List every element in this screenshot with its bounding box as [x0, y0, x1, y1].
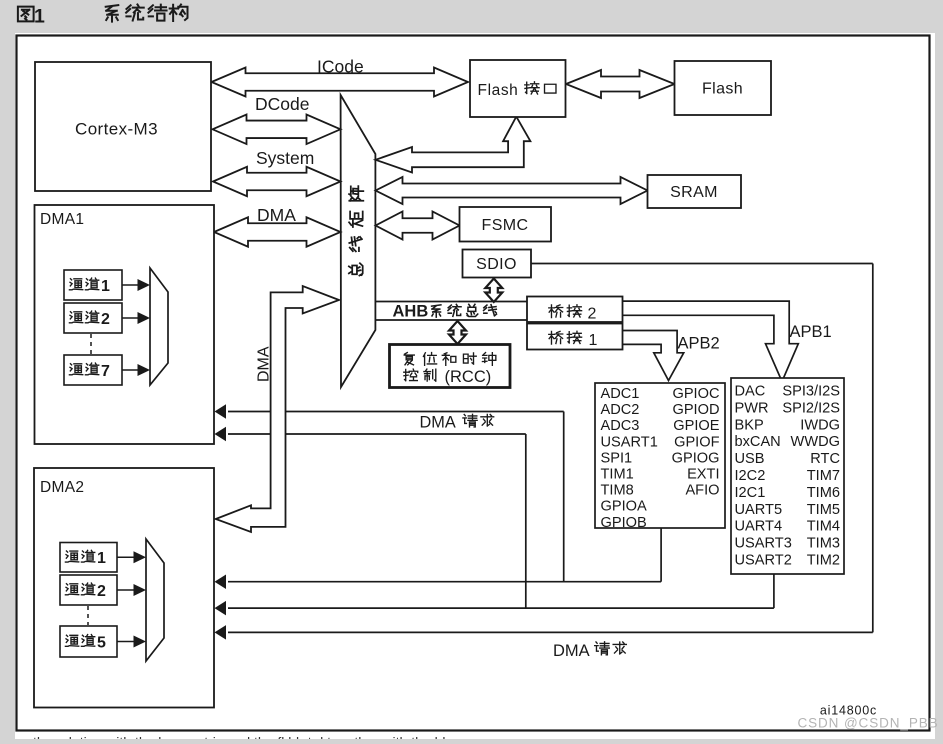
wire channel to mux — [117, 584, 146, 596]
wire channel to mux — [122, 312, 150, 324]
box FSMC — [460, 207, 552, 242]
svg-text:1: 1 — [34, 5, 45, 27]
hollow arrow bridge1 to APB2 — [623, 331, 720, 381]
box DMA1 通道1 — [64, 270, 122, 300]
svg-text:ICode: ICode — [317, 57, 364, 77]
box bridge 桥接2 — [527, 297, 623, 323]
svg-text:DMA: DMA — [553, 642, 590, 660]
svg-text:DMA: DMA — [256, 346, 273, 382]
dashed line DMA2 channels — [87, 606, 89, 625]
svg-text:the relation with the bus matr: the relation with the bus matrix and the… — [33, 734, 450, 739]
mux DMA1 — [150, 268, 168, 385]
svg-text:GPIOA: GPIOA — [601, 499, 647, 515]
svg-text:APB2: APB2 — [678, 335, 720, 353]
arrow Flash interface to Flash — [566, 70, 675, 98]
svg-text:UART5: UART5 — [735, 502, 783, 518]
arrow DMA (DMA1 to matrix) — [214, 205, 341, 247]
svg-text:1: 1 — [589, 332, 598, 349]
arrow matrix to FSMC — [376, 212, 460, 240]
svg-text:TIM2: TIM2 — [807, 553, 840, 569]
box APB2 peripherals — [595, 383, 725, 531]
svg-text:USART1: USART1 — [601, 434, 658, 450]
svg-text:Cortex-M3: Cortex-M3 — [75, 120, 158, 139]
svg-text:BKP: BKP — [735, 417, 764, 433]
box SRAM — [648, 175, 742, 208]
svg-text:AHB: AHB — [393, 303, 429, 321]
svg-text:USB: USB — [735, 451, 765, 467]
arrow ICode — [212, 57, 469, 97]
svg-text:ADC2: ADC2 — [601, 402, 640, 418]
svg-text:bxCAN: bxCAN — [735, 434, 781, 450]
box DMA1 通道7 — [64, 355, 122, 385]
bus matrix 总线矩阵 — [341, 95, 376, 387]
wire channel to mux — [117, 551, 146, 563]
box DMA1 — [35, 205, 215, 444]
svg-text:I2C2: I2C2 — [735, 468, 766, 484]
svg-text:GPIOE: GPIOE — [673, 418, 719, 434]
box DMA2 通道5 — [60, 626, 117, 657]
box APB1 peripherals — [731, 378, 844, 574]
arrow matrix to SRAM — [376, 177, 648, 204]
svg-text:DMA2: DMA2 — [40, 479, 84, 496]
svg-text:DMA: DMA — [420, 414, 456, 432]
label DMA 请求 (lower) — [553, 642, 626, 660]
svg-text:GPIOG: GPIOG — [672, 450, 720, 466]
wire: APB1 requests to DMA1/DMA2 — [215, 427, 774, 616]
box bridge 桥接1 — [527, 324, 623, 350]
svg-text:System: System — [256, 148, 314, 168]
svg-text:TIM8: TIM8 — [601, 483, 634, 499]
svg-text:1: 1 — [101, 278, 110, 295]
svg-text:DMA: DMA — [257, 205, 296, 225]
svg-text:RTC: RTC — [810, 451, 840, 467]
svg-text:TIM4: TIM4 — [807, 519, 840, 535]
box Flash 接口 — [470, 60, 566, 117]
svg-text:SPI1: SPI1 — [601, 450, 633, 466]
svg-text:Flash: Flash — [478, 82, 519, 99]
svg-text:TIM7: TIM7 — [807, 468, 840, 484]
svg-text:DCode: DCode — [255, 94, 309, 114]
wire channel to mux — [117, 636, 146, 648]
svg-text:TIM3: TIM3 — [807, 536, 840, 552]
arrow System — [213, 148, 341, 196]
svg-text:TIM5: TIM5 — [807, 502, 840, 518]
svg-text:DMA1: DMA1 — [40, 211, 84, 228]
hollow arrow bridge2 to APB1 — [623, 301, 832, 381]
svg-text:ADC1: ADC1 — [601, 386, 640, 402]
svg-text:GPIOF: GPIOF — [674, 434, 719, 450]
svg-text:USART2: USART2 — [735, 553, 792, 569]
hollow bent arrow: matrix to Flash interface — [376, 117, 531, 173]
box Flash — [675, 61, 772, 115]
svg-text:2: 2 — [97, 583, 106, 600]
AHB system bus band — [375, 302, 527, 321]
svg-text:SDIO: SDIO — [476, 256, 517, 273]
hollow Z arrow: bus matrix <-> DMA2 — [216, 286, 339, 532]
svg-text:APB1: APB1 — [790, 323, 832, 341]
wire channel to mux — [122, 279, 150, 291]
vertical arrow AHB to RCC — [449, 321, 466, 344]
svg-text:GPIOB: GPIOB — [601, 515, 647, 531]
svg-text:SRAM: SRAM — [670, 184, 718, 201]
svg-text:AFIO: AFIO — [685, 483, 719, 499]
svg-text:1: 1 — [97, 550, 106, 567]
box DMA2 — [34, 468, 214, 708]
arrow DCode — [213, 94, 341, 144]
svg-text:IWDG: IWDG — [800, 417, 840, 433]
svg-text:PWR: PWR — [735, 400, 769, 416]
svg-text:USART3: USART3 — [735, 536, 792, 552]
wire channel to mux — [122, 364, 150, 376]
svg-text:EXTI: EXTI — [687, 467, 719, 483]
box DMA2 通道2 — [60, 575, 117, 605]
box DMA2 通道1 — [60, 543, 117, 573]
svg-text:TIM1: TIM1 — [601, 467, 634, 483]
svg-text:SPI2/I2S: SPI2/I2S — [782, 400, 840, 416]
svg-text:Flash: Flash — [702, 81, 743, 98]
box RCC 复位和时钟控制 — [390, 345, 511, 388]
svg-text:WWDG: WWDG — [791, 434, 840, 450]
svg-text:TIM6: TIM6 — [807, 485, 840, 501]
svg-text:I2C1: I2C1 — [735, 485, 766, 501]
svg-text:DAC: DAC — [735, 384, 766, 400]
dashed line DMA1 channels — [90, 334, 92, 354]
box SDIO — [463, 250, 532, 278]
box Cortex-M3 — [35, 62, 211, 191]
svg-text:GPIOD: GPIOD — [672, 402, 719, 418]
svg-text:SPI3/I2S: SPI3/I2S — [782, 384, 840, 400]
box DMA1 通道2 — [64, 303, 122, 333]
svg-text:5: 5 — [97, 634, 106, 651]
svg-text:2: 2 — [588, 306, 597, 323]
svg-text:(RCC): (RCC) — [445, 368, 492, 386]
wire: APB2 requests to DMA1/DMA2 — [215, 404, 662, 589]
svg-text:2: 2 — [101, 311, 110, 328]
label DMA 请求 (upper) — [420, 414, 494, 432]
svg-text:GPIOC: GPIOC — [672, 386, 719, 402]
vertical arrow SDIO to AHB — [485, 279, 502, 303]
svg-text:CSDN @CSDN_PBB: CSDN @CSDN_PBB — [797, 716, 938, 731]
svg-text:ADC3: ADC3 — [601, 418, 640, 434]
figure title 图1 系统结构 — [18, 4, 188, 27]
svg-text:7: 7 — [101, 363, 110, 380]
svg-text:UART4: UART4 — [735, 519, 783, 535]
wire: SDIO DMA request to DMA2 — [215, 264, 873, 640]
mux DMA2 — [146, 539, 164, 661]
svg-text:FSMC: FSMC — [482, 217, 529, 234]
